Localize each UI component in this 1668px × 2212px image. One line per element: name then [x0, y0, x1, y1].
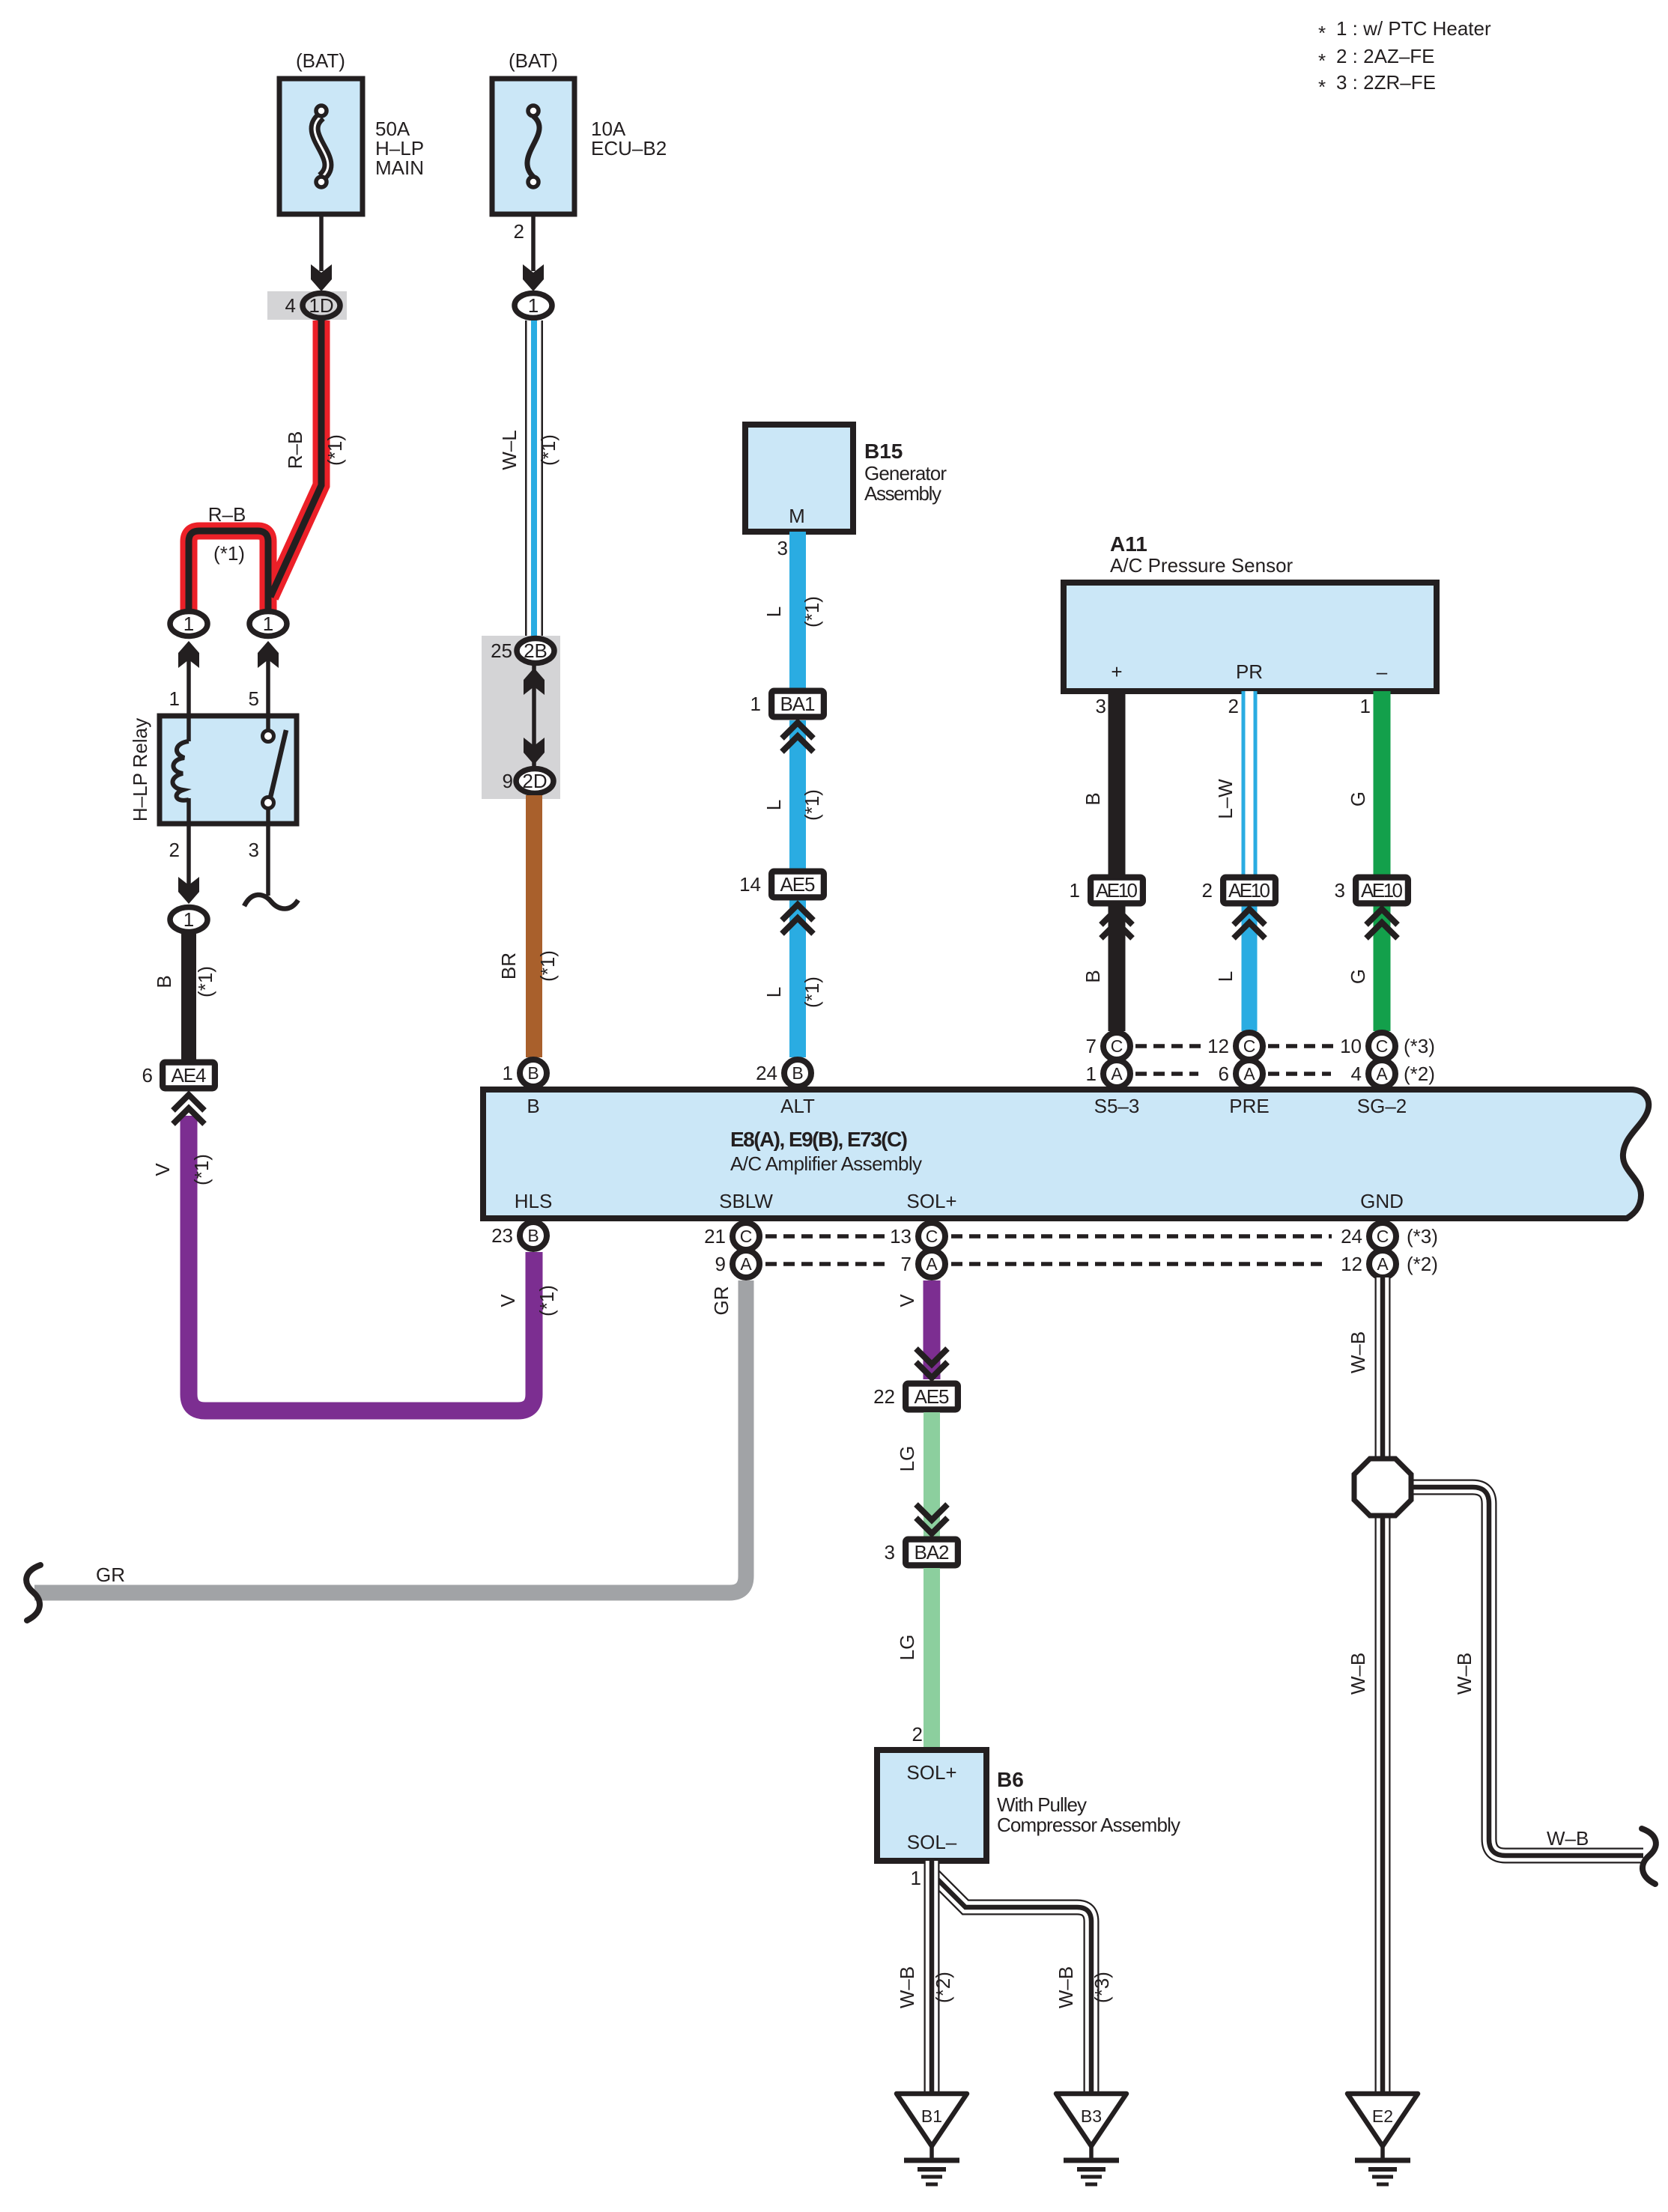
svg-text:C: C	[740, 1227, 753, 1246]
svg-text:12: 12	[1207, 1035, 1229, 1057]
svg-text:SOL+: SOL+	[906, 1761, 956, 1784]
svg-text:AE10: AE10	[1361, 879, 1403, 902]
svg-text:AE4: AE4	[172, 1064, 207, 1087]
svg-text:2: 2	[912, 1723, 923, 1745]
svg-text:C: C	[926, 1227, 938, 1246]
svg-text:G: G	[1347, 791, 1369, 806]
svg-text:GND: GND	[1360, 1190, 1404, 1212]
svg-text:2: 2	[1228, 695, 1239, 717]
svg-text:(BAT): (BAT)	[296, 49, 345, 72]
svg-text:(*3): (*3)	[1404, 1035, 1435, 1057]
svg-text:B3: B3	[1081, 2106, 1102, 2126]
svg-text:C: C	[1243, 1036, 1256, 1056]
svg-text:B: B	[527, 1095, 539, 1117]
svg-text:L: L	[1214, 971, 1237, 982]
svg-text:1: 1	[750, 693, 761, 715]
svg-text:(*3): (*3)	[1091, 1972, 1113, 2003]
svg-text:SOL–: SOL–	[907, 1831, 957, 1853]
svg-text:A/C Amplifier Assembly: A/C Amplifier Assembly	[730, 1152, 922, 1175]
svg-text:PRE: PRE	[1229, 1095, 1269, 1117]
svg-text:3: 3	[249, 839, 259, 861]
svg-text:L: L	[762, 800, 785, 810]
svg-text:(*3): (*3)	[1407, 1225, 1438, 1248]
svg-text:3 : 2ZR–FE: 3 : 2ZR–FE	[1336, 71, 1436, 94]
svg-text:23: 23	[491, 1224, 513, 1247]
svg-text:(*2): (*2)	[1407, 1253, 1438, 1275]
svg-text:21: 21	[704, 1225, 726, 1248]
svg-text:SOL+: SOL+	[906, 1190, 956, 1212]
svg-text:C: C	[1111, 1036, 1123, 1056]
svg-text:6: 6	[1219, 1063, 1229, 1085]
svg-text:GR: GR	[96, 1564, 125, 1586]
svg-text:AE5: AE5	[915, 1385, 950, 1408]
svg-text:B: B	[527, 1226, 539, 1245]
svg-text:1: 1	[503, 1062, 513, 1084]
svg-text:1: 1	[263, 613, 273, 635]
svg-text:4: 4	[285, 294, 296, 317]
svg-text:V: V	[497, 1294, 519, 1307]
svg-text:B: B	[1082, 792, 1104, 805]
svg-text:M: M	[789, 505, 805, 527]
svg-text:(*1): (*1)	[801, 789, 823, 821]
svg-text:*: *	[1318, 22, 1326, 44]
svg-text:AE10: AE10	[1228, 879, 1270, 902]
svg-text:(*1): (*1)	[801, 976, 823, 1008]
svg-text:(*1): (*1)	[536, 950, 559, 982]
svg-text:B6: B6	[997, 1768, 1024, 1791]
svg-text:B: B	[153, 975, 175, 988]
svg-text:V: V	[896, 1294, 918, 1307]
svg-text:W–B: W–B	[1547, 1827, 1589, 1850]
svg-text:1: 1	[169, 687, 180, 710]
svg-text:L: L	[762, 987, 785, 997]
svg-text:1: 1	[911, 1867, 921, 1889]
svg-text:4: 4	[1351, 1063, 1362, 1085]
svg-text:2: 2	[1202, 879, 1213, 902]
svg-text:3: 3	[777, 537, 788, 559]
svg-text:AE5: AE5	[780, 873, 816, 896]
svg-text:3: 3	[1335, 879, 1345, 902]
svg-text:*: *	[1318, 49, 1326, 72]
svg-text:B: B	[527, 1063, 539, 1083]
svg-text:5: 5	[249, 687, 259, 710]
svg-text:(*2): (*2)	[932, 1972, 954, 2003]
svg-text:Compressor Assembly: Compressor Assembly	[997, 1814, 1180, 1836]
svg-text:A: A	[1376, 1064, 1388, 1084]
svg-text:SG–2: SG–2	[1357, 1095, 1407, 1117]
svg-text:A: A	[1243, 1064, 1255, 1084]
svg-text:7: 7	[1086, 1035, 1097, 1057]
svg-text:B: B	[1082, 970, 1104, 982]
svg-text:W–L: W–L	[498, 430, 521, 470]
svg-text:9: 9	[503, 770, 513, 792]
svg-text:1: 1	[184, 613, 194, 635]
svg-text:R–B: R–B	[284, 431, 306, 470]
svg-text:22: 22	[873, 1385, 895, 1408]
svg-text:(*1): (*1)	[537, 434, 559, 466]
svg-text:With Pulley: With Pulley	[997, 1793, 1087, 1816]
svg-text:(*1): (*1)	[536, 1285, 558, 1316]
svg-text:B15: B15	[864, 440, 903, 463]
svg-text:14: 14	[739, 873, 761, 896]
svg-text:W–B: W–B	[1347, 1331, 1369, 1373]
svg-text:PR: PR	[1236, 660, 1263, 683]
svg-text:(*1): (*1)	[190, 1154, 213, 1185]
svg-text:(*1): (*1)	[801, 596, 823, 628]
svg-text:24: 24	[756, 1062, 777, 1084]
svg-text:1: 1	[1360, 695, 1371, 717]
svg-text:MAIN: MAIN	[375, 157, 424, 179]
svg-text:13: 13	[890, 1225, 912, 1248]
svg-text:*: *	[1318, 76, 1326, 98]
svg-text:GR: GR	[710, 1286, 733, 1316]
svg-text:B: B	[792, 1063, 803, 1083]
svg-text:C: C	[1377, 1227, 1389, 1246]
svg-text:25: 25	[491, 639, 512, 662]
svg-text:AE10: AE10	[1096, 879, 1138, 902]
svg-text:B1: B1	[921, 2106, 942, 2126]
svg-text:C: C	[1376, 1036, 1389, 1056]
svg-text:V: V	[151, 1163, 174, 1176]
svg-text:2: 2	[169, 839, 180, 861]
svg-text:2 : 2AZ–FE: 2 : 2AZ–FE	[1336, 45, 1435, 67]
svg-text:9: 9	[715, 1253, 726, 1275]
svg-text:W–B: W–B	[1055, 1966, 1077, 2008]
svg-text:SBLW: SBLW	[719, 1190, 773, 1212]
svg-text:3: 3	[1096, 695, 1106, 717]
svg-text:A: A	[926, 1254, 938, 1274]
svg-text:A: A	[1111, 1064, 1123, 1084]
svg-text:W–B: W–B	[1453, 1653, 1476, 1695]
svg-text:A/C Pressure Sensor: A/C Pressure Sensor	[1110, 554, 1294, 577]
svg-text:A11: A11	[1110, 532, 1147, 556]
svg-text:1D: 1D	[309, 294, 333, 317]
svg-text:12: 12	[1341, 1253, 1362, 1275]
svg-text:W–B: W–B	[1347, 1653, 1369, 1695]
svg-text:Generator: Generator	[864, 462, 947, 484]
svg-text:G: G	[1347, 969, 1369, 984]
svg-text:R–B: R–B	[208, 503, 246, 526]
svg-text:A: A	[1377, 1254, 1389, 1274]
svg-text:BA1: BA1	[780, 693, 816, 715]
svg-text:6: 6	[142, 1064, 153, 1087]
svg-text:+: +	[1111, 660, 1122, 683]
svg-text:(BAT): (BAT)	[509, 49, 558, 72]
svg-text:1: 1	[1086, 1063, 1097, 1085]
svg-text:24: 24	[1341, 1225, 1362, 1248]
svg-text:L–W: L–W	[1214, 779, 1237, 819]
svg-text:H–LP Relay: H–LP Relay	[129, 718, 151, 821]
svg-text:ALT: ALT	[780, 1095, 815, 1117]
svg-text:L: L	[762, 607, 785, 617]
svg-text:2B: 2B	[524, 639, 548, 662]
svg-text:Assembly: Assembly	[864, 482, 941, 505]
svg-text:S5–3: S5–3	[1094, 1095, 1140, 1117]
svg-text:2: 2	[514, 220, 524, 243]
svg-text:HLS: HLS	[515, 1190, 553, 1212]
svg-text:E8(A), E9(B), E73(C): E8(A), E9(B), E73(C)	[730, 1128, 908, 1151]
svg-text:ECU–B2: ECU–B2	[591, 137, 667, 159]
svg-text:–: –	[1377, 660, 1388, 683]
svg-text:2D: 2D	[522, 770, 547, 792]
svg-text:1 : w/ PTC Heater: 1 : w/ PTC Heater	[1336, 17, 1491, 40]
svg-text:(*2): (*2)	[1404, 1063, 1435, 1085]
svg-text:W–B: W–B	[896, 1966, 918, 2008]
svg-text:3: 3	[885, 1541, 895, 1564]
svg-text:1: 1	[184, 908, 194, 931]
svg-text:BA2: BA2	[915, 1541, 950, 1564]
svg-text:BR: BR	[497, 952, 520, 979]
svg-text:LG: LG	[896, 1446, 918, 1472]
svg-text:(*1): (*1)	[194, 966, 216, 997]
svg-text:(*1): (*1)	[324, 434, 346, 466]
svg-text:1: 1	[1070, 879, 1080, 902]
svg-text:(*1): (*1)	[213, 542, 245, 565]
svg-text:1: 1	[528, 294, 539, 317]
svg-text:E2: E2	[1372, 2106, 1393, 2126]
svg-text:LG: LG	[896, 1635, 918, 1661]
svg-text:A: A	[740, 1254, 752, 1274]
svg-text:10: 10	[1340, 1035, 1362, 1057]
svg-text:7: 7	[901, 1253, 912, 1275]
